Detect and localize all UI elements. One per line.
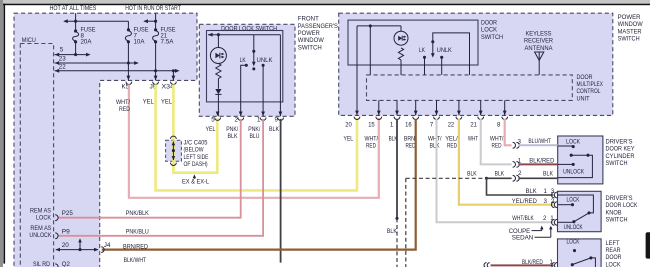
wire MICU pin 23 to fuse 7 xyxy=(55,62,137,64)
svg-text:MICU: MICU xyxy=(22,37,36,44)
svg-text:HOT AT ALL TIMES: HOT AT ALL TIMES xyxy=(50,5,97,12)
left rear switch arm xyxy=(572,258,591,265)
node knob arm top xyxy=(587,211,590,214)
svg-text:LOCK: LOCK xyxy=(481,27,498,34)
svg-text:DOOR LOCK SWITCH: DOOR LOCK SWITCH xyxy=(221,25,277,32)
LED indicator lamp (master DLS) xyxy=(394,31,408,45)
svg-text:PNK/BLU: PNK/BLU xyxy=(126,228,149,235)
svg-text:YEL: YEL xyxy=(161,99,173,106)
switch common feed (front passenger DLS) xyxy=(253,35,255,52)
UNLK contact (master) xyxy=(440,56,443,59)
svg-text:HOT IN RUN OR START: HOT IN RUN OR START xyxy=(125,5,181,12)
wire multiplex out pin 16 xyxy=(415,100,417,115)
page border left line xyxy=(3,4,5,264)
svg-text:3: 3 xyxy=(518,139,522,146)
node fuse8-pin5 junction xyxy=(74,53,77,56)
svg-text:DOOR: DOOR xyxy=(577,74,593,81)
connector arc P25 xyxy=(55,215,58,221)
svg-text:5: 5 xyxy=(211,117,215,124)
wire fuse21 bottom to J9 exit xyxy=(155,42,157,81)
svg-text:1: 1 xyxy=(518,158,522,165)
svg-text:EX & EX-L: EX & EX-L xyxy=(182,179,210,186)
connector arcs left rear row xyxy=(552,263,555,267)
svg-text:PNK/: PNK/ xyxy=(248,126,260,133)
wire master DLS top bus xyxy=(357,25,401,27)
switch arm arrow (front passenger DLS) xyxy=(253,51,255,64)
right edge black tab xyxy=(646,232,650,258)
wire master DLS bus corner down to pin 20 xyxy=(356,26,358,116)
wire multiplex out pin 15 xyxy=(378,100,380,115)
connector arcs key cylinder row 2 xyxy=(513,162,516,168)
wire diode to pin 5 xyxy=(217,94,219,116)
MICU box (dashed) xyxy=(20,44,53,267)
wire YEL from X34 to J/C C405 xyxy=(172,84,175,139)
wire MICU pin 22 to fuse 21 xyxy=(55,70,178,72)
wire WHT/BLK pin7 to knob switch row C xyxy=(437,119,554,222)
svg-text:DRIVER'S: DRIVER'S xyxy=(606,139,633,146)
LK contact (master) xyxy=(423,56,426,59)
svg-text:YEL/: YEL/ xyxy=(445,136,458,143)
svg-text:FRONT: FRONT xyxy=(298,16,319,23)
svg-text:16: 16 xyxy=(405,122,412,129)
svg-text:LOCK: LOCK xyxy=(566,138,581,145)
svg-text:REM AS: REM AS xyxy=(30,208,51,215)
fuse F21 7.5A xyxy=(154,28,157,31)
fuse F7 10A xyxy=(127,28,130,31)
svg-text:YEL: YEL xyxy=(206,126,216,133)
knob switch LOCK contact xyxy=(558,204,573,206)
connector arcs key cylinder row 1 xyxy=(513,142,516,148)
wire PNK/BLU pin1 to MICU P9 xyxy=(58,119,264,236)
wire BLK dashed ground down left leg xyxy=(405,178,407,267)
svg-text:BLK/RED: BLK/RED xyxy=(522,259,543,266)
svg-text:WHT/: WHT/ xyxy=(365,136,379,143)
svg-text:WHT/: WHT/ xyxy=(116,99,130,106)
svg-text:MASTER: MASTER xyxy=(618,28,642,35)
svg-text:LK: LK xyxy=(419,47,426,54)
node bus junction at fuse 8 xyxy=(74,20,77,23)
switch bracket (master DLS) xyxy=(433,33,470,75)
svg-text:RED: RED xyxy=(406,143,416,150)
svg-text:LEFT SIDE: LEFT SIDE xyxy=(184,154,209,161)
node DLS LED branch xyxy=(217,33,220,36)
wire BLK dashed continuation down xyxy=(396,218,398,267)
wire LED feed (master) xyxy=(400,26,402,31)
driver's door key cylinder switch box xyxy=(558,136,603,184)
svg-text:1: 1 xyxy=(550,215,554,222)
svg-text:SIL RD: SIL RD xyxy=(33,261,50,267)
connector arc Q2 xyxy=(55,264,58,267)
wire BLK dashed ground branch horizontal xyxy=(406,177,487,179)
svg-text:BLU/WHT: BLU/WHT xyxy=(528,138,551,145)
svg-text:BLK: BLK xyxy=(269,126,280,133)
LK contact and wire to pin 2 xyxy=(245,64,248,67)
svg-text:PASSENGER'S: PASSENGER'S xyxy=(298,23,338,30)
J/C C405 junction connector box (dashed) xyxy=(166,140,182,161)
svg-text:UNLOCK: UNLOCK xyxy=(564,224,584,231)
knob switch row C internal stub xyxy=(558,221,573,223)
wire YEL/RED pin22 to knob switch row B xyxy=(459,119,554,205)
node pin20 branch xyxy=(78,248,81,251)
svg-text:20: 20 xyxy=(345,122,352,129)
svg-text:3: 3 xyxy=(544,198,548,205)
node BLK junction xyxy=(395,217,398,220)
svg-text:1: 1 xyxy=(257,117,261,124)
wire BLK/RED to key cylinder UNLOCK xyxy=(518,163,557,165)
wire WHT/RED pin8 to key cylinder connector xyxy=(505,119,512,145)
svg-text:WHT/BLK: WHT/BLK xyxy=(512,215,534,222)
svg-text:10A: 10A xyxy=(134,39,146,46)
branch arrow up from pin 20 wire xyxy=(79,240,81,250)
driver's door lock knob switch box xyxy=(558,191,602,231)
key cylinder floating arm xyxy=(570,154,573,157)
node master DLS multiplex branch xyxy=(369,24,372,27)
wire PNK/BLK pin2 to MICU P25 xyxy=(58,119,241,218)
svg-text:P9: P9 xyxy=(62,229,71,236)
svg-text:RED: RED xyxy=(447,143,457,150)
wire multiplex out pin 22 xyxy=(458,100,460,115)
svg-text:POWER: POWER xyxy=(618,14,642,21)
connector arc J/C top xyxy=(171,136,177,139)
connector arcs at front passenger DLS pins xyxy=(215,118,221,121)
wire WHT pin21 to key cylinder connector xyxy=(481,119,512,164)
svg-text:2: 2 xyxy=(543,215,547,222)
svg-text:BLK: BLK xyxy=(467,170,477,177)
connector arc J/C bottom xyxy=(171,163,177,166)
node J/C C405 center xyxy=(172,149,175,152)
svg-text:WHT: WHT xyxy=(468,136,478,143)
knob switch row A internal path xyxy=(558,195,594,213)
wire hot-in-run feed to fuse 21 xyxy=(155,13,157,30)
svg-text:UNLOCK: UNLOCK xyxy=(563,169,585,176)
svg-text:YEL: YEL xyxy=(143,99,155,106)
wire resistor to multiplex xyxy=(400,60,402,75)
wire BLK pin1 down to junction xyxy=(396,119,398,218)
svg-text:BRN/RED: BRN/RED xyxy=(123,243,148,250)
svg-text:J/C C405: J/C C405 xyxy=(184,139,209,146)
switch arm arrow (master DLS) xyxy=(432,42,434,56)
svg-text:CONTROL: CONTROL xyxy=(577,88,601,95)
wire X34 branch down xyxy=(172,71,174,81)
wire BLU/WHT to key cylinder LOCK xyxy=(518,144,557,146)
connector X34 arc xyxy=(171,82,177,85)
svg-text:BLK: BLK xyxy=(495,170,505,177)
svg-text:SWITCH: SWITCH xyxy=(298,44,322,51)
svg-text:LOCK: LOCK xyxy=(36,215,52,222)
wire MICU pin 5 to fuse 8 xyxy=(55,54,89,56)
node fuse21-pin22 junction xyxy=(154,69,157,72)
node BLK ground junction xyxy=(485,177,488,180)
svg-text:LEFT: LEFT xyxy=(606,240,620,247)
left rear internal path xyxy=(591,258,596,267)
svg-text:SWITCH: SWITCH xyxy=(606,217,628,224)
svg-text:9: 9 xyxy=(275,117,279,124)
window chrome grey top strip xyxy=(0,0,650,3)
svg-text:LOCK: LOCK xyxy=(567,239,581,246)
key cylinder LOCK contact xyxy=(558,145,574,147)
antenna symbol xyxy=(535,52,544,60)
svg-text:RECEIVER: RECEIVER xyxy=(524,38,553,45)
wire WHT/RED from K5 to master pin 15 xyxy=(129,84,379,197)
svg-text:1: 1 xyxy=(550,259,554,266)
svg-text:BLK: BLK xyxy=(526,188,538,195)
svg-text:SWITCH: SWITCH xyxy=(606,160,628,167)
node bracket-arm junction xyxy=(431,40,434,43)
svg-text:1: 1 xyxy=(544,188,548,195)
svg-text:BLK: BLK xyxy=(387,228,398,235)
bottom-left grey mark xyxy=(0,259,3,267)
svg-text:ANTENNA: ANTENNA xyxy=(525,45,554,52)
wire multiplex out pin 7 xyxy=(436,100,438,115)
node switch common xyxy=(252,50,255,53)
wire multiplex out pin 1 xyxy=(396,100,398,115)
svg-text:22: 22 xyxy=(448,122,455,129)
svg-text:PNK/BLK: PNK/BLK xyxy=(126,210,150,217)
left rear door lock knob switch box xyxy=(558,239,602,267)
connector break marks BLK/RED xyxy=(484,263,490,267)
junction element inside J/C C405 xyxy=(172,142,174,161)
door multiplex control unit box (dashed) xyxy=(367,75,573,101)
LED indicator lamp (front passenger DLS) xyxy=(210,48,226,64)
wire BLK pin9 down xyxy=(280,119,282,263)
svg-text:UNIT: UNIT xyxy=(577,95,590,102)
wire bus corner down to fuse 7 xyxy=(127,21,129,30)
wire YEL from J/C C405 to DLS pin 5 xyxy=(173,118,217,172)
svg-text:PNK/: PNK/ xyxy=(226,126,238,133)
svg-text:22: 22 xyxy=(59,64,67,71)
svg-text:RED: RED xyxy=(366,143,376,150)
svg-text:15: 15 xyxy=(368,122,375,129)
left rear LOCK contact dot xyxy=(573,249,576,252)
svg-text:2: 2 xyxy=(235,117,239,124)
wire hot-at-all-times bus xyxy=(64,20,128,22)
wire fuse7 bottom through junction to K5 xyxy=(127,42,129,81)
svg-text:7.5A: 7.5A xyxy=(161,39,175,46)
svg-text:DOOR: DOOR xyxy=(481,19,497,26)
svg-text:1: 1 xyxy=(390,122,394,129)
svg-text:BLK/WHT: BLK/WHT xyxy=(124,257,147,264)
svg-text:21: 21 xyxy=(470,122,477,129)
wire multiplex out pin 21 xyxy=(480,100,482,115)
svg-text:RED: RED xyxy=(119,106,130,113)
svg-text:RED: RED xyxy=(492,143,502,150)
power window master switch box (dashed) xyxy=(339,13,613,115)
window chrome grey left strip xyxy=(0,0,3,267)
connector arcs knob switch row C xyxy=(552,219,555,225)
wire BLK branch down to knob switch row A xyxy=(487,178,554,195)
svg-text:UNLK: UNLK xyxy=(437,47,453,54)
wire DLS internal top bus xyxy=(208,34,280,36)
svg-text:DRIVER'S: DRIVER'S xyxy=(606,195,633,202)
svg-text:KNOB: KNOB xyxy=(606,209,622,216)
key cylinder common path to pin 2 xyxy=(558,155,593,177)
knob switch arm diagonal xyxy=(574,213,589,222)
connector J9 arc xyxy=(153,82,159,85)
wire YEL from J9 to master pin 20 xyxy=(156,84,357,190)
wire DLS bus down right side to pin 9 xyxy=(279,35,281,117)
power distribution box (under-dash fuse/relay box, dashed) xyxy=(14,13,197,267)
svg-text:MULTIPLEX: MULTIPLEX xyxy=(577,81,604,88)
svg-text:SWITCH: SWITCH xyxy=(481,34,503,41)
resistor (front passenger DLS) xyxy=(216,64,221,79)
svg-text:CYLINDER: CYLINDER xyxy=(606,153,635,160)
svg-text:BLU: BLU xyxy=(250,133,260,140)
svg-text:BLK: BLK xyxy=(543,170,554,177)
page border top line xyxy=(3,4,650,6)
connector arcs at master switch pins xyxy=(354,117,360,120)
svg-text:BLK: BLK xyxy=(228,133,239,140)
resistor (master DLS) xyxy=(398,48,403,60)
svg-text:BLK: BLK xyxy=(430,143,441,150)
svg-text:POWER: POWER xyxy=(298,30,320,37)
svg-text:WHT/: WHT/ xyxy=(428,136,442,143)
svg-text:LK: LK xyxy=(240,57,247,64)
svg-text:20: 20 xyxy=(62,242,70,249)
svg-text:KEYLESS: KEYLESS xyxy=(526,30,552,37)
wire fuse8 bottom to pin5 line xyxy=(75,42,77,55)
UNLK contact and wire to pin 1 xyxy=(262,64,265,67)
wire MICU pin 20 to J4 xyxy=(56,249,98,251)
svg-text:WHT/: WHT/ xyxy=(490,136,504,143)
wire BLK/RED to left rear knob switch xyxy=(491,264,554,266)
svg-text:J4: J4 xyxy=(104,242,112,249)
svg-text:2: 2 xyxy=(518,170,522,177)
svg-text:WINDOW: WINDOW xyxy=(618,21,643,28)
svg-text:2: 2 xyxy=(551,198,555,205)
svg-text:UNLK: UNLK xyxy=(257,57,274,64)
svg-text:Q2: Q2 xyxy=(62,261,71,267)
door lock switch inner box (master switch) xyxy=(348,20,478,65)
svg-text:DOOR LOCK: DOOR LOCK xyxy=(606,202,639,209)
svg-text:8: 8 xyxy=(497,122,501,129)
svg-text:REM AS: REM AS xyxy=(30,225,51,232)
connector arcs knob switch row B xyxy=(552,202,555,208)
svg-text:LOCK: LOCK xyxy=(606,261,622,267)
wire YEL J/C C405 through segment xyxy=(172,140,175,161)
connector arc J4 xyxy=(101,247,104,253)
svg-text:(BELOW: (BELOW xyxy=(184,147,204,154)
door lock switch inner box (front passenger) xyxy=(207,31,283,102)
connector K5 arc xyxy=(126,82,132,85)
svg-text:YEL/RED: YEL/RED xyxy=(512,198,537,205)
connector arcs knob switch row A xyxy=(552,192,555,198)
svg-text:WINDOW: WINDOW xyxy=(298,37,324,44)
svg-text:7: 7 xyxy=(430,122,434,129)
wire multiplex out pin 8 xyxy=(504,100,506,115)
node knob arm pivot xyxy=(572,220,575,223)
fuse F8 20A xyxy=(74,29,77,32)
svg-text:UNLOCK: UNLOCK xyxy=(29,232,52,239)
svg-text:23: 23 xyxy=(59,55,67,62)
wire branch to multiplex xyxy=(369,26,371,75)
svg-text:SWITCH: SWITCH xyxy=(618,36,640,43)
connector arcs key cylinder row 3 xyxy=(513,175,516,181)
svg-text:DOOR KEY: DOOR KEY xyxy=(606,146,635,153)
svg-text:BLK/RED: BLK/RED xyxy=(529,158,554,165)
front passenger power window switch box (dashed) xyxy=(199,24,295,116)
svg-text:REAR: REAR xyxy=(606,247,621,254)
svg-text:OF DASH): OF DASH) xyxy=(184,161,208,168)
svg-text:LOCK: LOCK xyxy=(567,196,581,203)
svg-text:P25: P25 xyxy=(62,210,74,217)
svg-text:20A: 20A xyxy=(81,39,93,46)
svg-text:DOOR: DOOR xyxy=(606,254,622,261)
svg-text:SEDAN: SEDAN xyxy=(512,235,534,242)
wire fuse8 feed from top border xyxy=(75,13,77,31)
svg-text:3: 3 xyxy=(551,188,555,195)
connector arc P9 xyxy=(55,233,58,239)
wire BRN/RED pin16 to MICU J4 xyxy=(102,119,416,250)
node fuse7-pin23 junction xyxy=(127,61,130,64)
node fuse21 top junction xyxy=(154,20,157,23)
diode (front passenger DLS) xyxy=(215,89,221,94)
node X34 branch junction xyxy=(172,69,175,72)
wire LED feed xyxy=(217,35,219,48)
svg-text:5: 5 xyxy=(60,46,64,53)
wire BLK to key cylinder row 3 xyxy=(487,177,512,179)
wire stub arrow left of fuse 21 xyxy=(145,20,156,22)
key cylinder UNLOCK contact xyxy=(558,163,574,165)
svg-text:YEL: YEL xyxy=(344,136,354,143)
